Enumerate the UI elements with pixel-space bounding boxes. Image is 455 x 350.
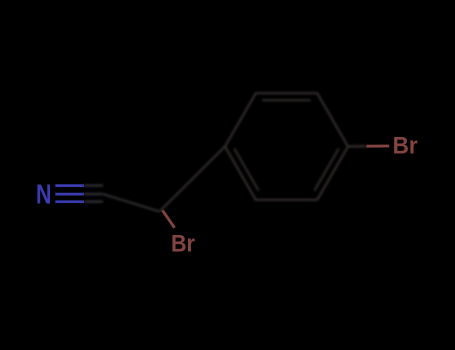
aromatic inner line (left-lower edge) xyxy=(234,149,258,191)
svg-text:Br: Br xyxy=(171,229,195,257)
bond C2-ring ipso xyxy=(160,147,226,212)
aromatic inner line (right-lower edge) xyxy=(314,149,338,191)
triple bond N#C top line (carbon half) xyxy=(84,184,103,186)
svg-text:Br: Br xyxy=(393,132,418,159)
triple bond N#C middle line (carbon half) xyxy=(84,193,103,195)
benzene ring outline xyxy=(225,93,348,200)
svg-text:N: N xyxy=(36,180,51,210)
triple bond N#C bottom line (blue half) xyxy=(55,200,84,203)
bond ring-Br right (carbon half) xyxy=(348,145,367,148)
bond C1-C2 xyxy=(103,194,160,211)
bond ring-Br right (maroon half) xyxy=(367,145,390,148)
triple bond N#C middle line (blue half) xyxy=(55,193,84,196)
aromatic inner line (top edge) xyxy=(262,99,311,101)
triple bond N#C top line (blue half) xyxy=(55,184,84,187)
bond C2-Br (maroon) xyxy=(162,210,174,228)
triple bond N#C bottom line (carbon half) xyxy=(84,200,103,202)
